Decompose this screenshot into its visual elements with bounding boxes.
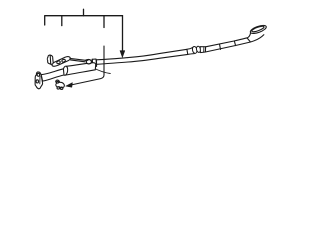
collar tick xyxy=(203,47,205,53)
rod to hook xyxy=(70,58,86,61)
flange hole lower xyxy=(36,80,38,83)
front flange xyxy=(35,72,43,89)
hook curl xyxy=(86,59,92,63)
clamp small circle 2 xyxy=(60,87,63,89)
clip inner line xyxy=(49,55,52,64)
leader arrow down to pipe xyxy=(122,16,124,51)
flange inner edge xyxy=(39,76,41,84)
converter left cap xyxy=(62,66,68,76)
arrowhead to clamp xyxy=(66,83,73,88)
S-pipe from flange to converter xyxy=(41,69,64,81)
main pipe tube (right section) xyxy=(97,49,188,64)
arrowhead down xyxy=(120,51,125,58)
joint ring 2 xyxy=(196,46,201,53)
strap hole 2 xyxy=(61,59,65,63)
taper line under neck xyxy=(92,67,110,73)
weld tick 1 xyxy=(220,44,221,49)
joint ring 1 xyxy=(192,46,198,54)
converter body xyxy=(65,63,95,75)
joint collar xyxy=(200,47,205,53)
bracket stem up xyxy=(83,9,85,15)
ball joint flare xyxy=(187,47,194,54)
end flange outer xyxy=(249,24,267,35)
bracket tick 2 xyxy=(61,16,63,26)
callout bracket top xyxy=(45,16,123,25)
converter neck ring xyxy=(92,59,96,67)
end flange inner xyxy=(251,25,264,33)
clamp inner circle xyxy=(57,81,59,83)
clamp (arrow target) xyxy=(56,80,65,88)
bracket tick 3 upper segment xyxy=(103,16,105,28)
rear end bend up xyxy=(247,33,264,42)
weld tick 2 xyxy=(234,41,235,46)
clamp small circle 1 xyxy=(57,87,60,89)
flange hole upper xyxy=(37,73,40,76)
neck ring left edge xyxy=(91,59,94,66)
tube to rear bend xyxy=(205,38,250,52)
leader line to clamp xyxy=(71,46,104,85)
hanger clip xyxy=(47,55,53,64)
strap hole 1 xyxy=(56,60,60,64)
strap bracket with two holes xyxy=(52,57,70,67)
